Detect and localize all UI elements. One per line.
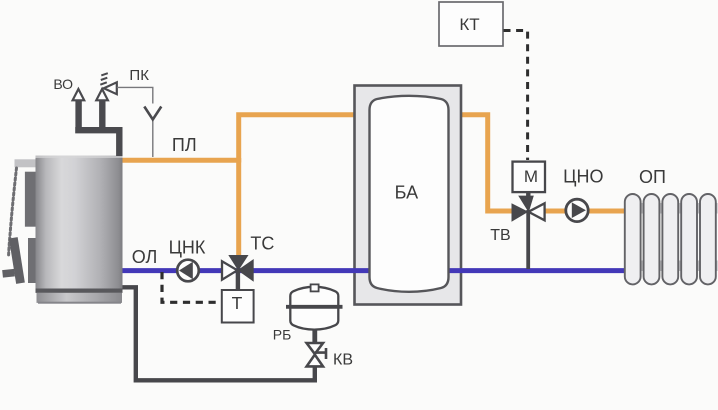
pump CNK xyxy=(177,260,199,282)
three-way valve TS xyxy=(222,255,254,290)
svg-text:ТВ: ТВ xyxy=(490,227,510,244)
svg-text:ВО: ВО xyxy=(53,76,73,92)
svg-text:Т: Т xyxy=(232,293,243,313)
boiler bottom band xyxy=(36,289,123,293)
air vent VO triangle xyxy=(73,89,85,100)
wire: orange drop to TS valve xyxy=(236,158,241,257)
safety valve PK side triangle xyxy=(104,82,117,94)
wire: RB to KV xyxy=(312,329,317,344)
svg-text:ПК: ПК xyxy=(129,67,149,84)
check symbol on discharge line xyxy=(144,107,161,120)
expansion tank RB xyxy=(286,284,343,329)
svg-text:ЦНК: ЦНК xyxy=(169,238,206,258)
svg-text:БА: БА xyxy=(395,183,418,203)
svg-text:КВ: КВ xyxy=(333,352,353,369)
svg-text:ЦНО: ЦНО xyxy=(563,167,603,187)
three-way valve TV xyxy=(512,191,545,222)
thermostat box T xyxy=(222,290,254,323)
wire: orange from BA to TV valve xyxy=(461,115,516,211)
boiler pedestal xyxy=(37,293,123,303)
radiator OP sections xyxy=(625,194,716,284)
radiator OP connectors xyxy=(627,203,718,214)
svg-text:М: М xyxy=(524,167,538,186)
safety valve PK spring xyxy=(100,73,108,85)
svg-text:КТ: КТ xyxy=(459,15,479,34)
pipe OL return (blue) xyxy=(123,268,628,273)
boiler ash door xyxy=(28,238,41,283)
boiler chain xyxy=(9,168,17,257)
wire: TV valve drop to return xyxy=(526,210,530,269)
boiler door xyxy=(25,172,39,227)
thermostat box KT xyxy=(439,2,503,46)
boiler body xyxy=(36,156,123,289)
buffer tank BA outer shell xyxy=(355,86,462,305)
svg-text:ОП: ОП xyxy=(639,167,666,187)
servo box M xyxy=(513,162,546,193)
svg-text:ОЛ: ОЛ xyxy=(132,247,158,267)
boiler lever xyxy=(2,237,25,284)
boiler chain bracket xyxy=(15,159,37,167)
wire: top pipe assembly xyxy=(75,99,119,156)
pipe PL supply (orange) xyxy=(123,158,239,163)
wire: orange riser to top xyxy=(239,115,355,163)
wire: PK discharge thin line xyxy=(117,87,153,157)
safety valve PK riser triangle xyxy=(96,89,108,100)
svg-text:ПЛ: ПЛ xyxy=(172,135,197,155)
wire: orange valve to pump CNO xyxy=(542,209,568,214)
pump CNO xyxy=(566,199,588,221)
wire: orange pump to radiator xyxy=(588,209,627,214)
buffer tank BA inner vessel xyxy=(370,96,449,292)
wire: return pipe boiler to KV xyxy=(123,287,315,380)
svg-text:РБ: РБ xyxy=(273,327,292,343)
dashed control line KT to M xyxy=(504,31,528,161)
svg-text:ТС: ТС xyxy=(250,234,274,254)
dashed control line pump CNK xyxy=(162,272,221,302)
drain valve KV xyxy=(307,343,326,366)
